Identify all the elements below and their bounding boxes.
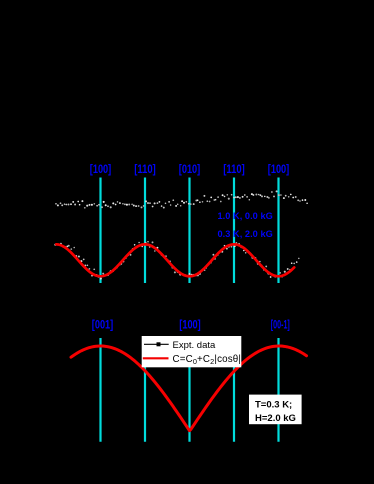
svg-text:0.3 K, 2.0 kG: 0.3 K, 2.0 kG — [218, 229, 273, 239]
svg-text:[00-1]: [00-1] — [271, 317, 290, 331]
svg-text:[110]: [110] — [134, 162, 156, 176]
svg-text:[001]: [001] — [92, 317, 114, 331]
svg-text:H=2.0 kG: H=2.0 kG — [255, 413, 296, 424]
svg-text:[100]: [100] — [90, 162, 112, 176]
svg-text:T=0.3 K;: T=0.3 K; — [255, 399, 292, 410]
svg-text:C=C0+C2|cosθ|: C=C0+C2|cosθ| — [173, 354, 242, 366]
svg-text:1.0 K, 0.0 kG: 1.0 K, 0.0 kG — [218, 211, 273, 221]
svg-text:Expt. data: Expt. data — [173, 340, 216, 351]
svg-text:[100]: [100] — [268, 162, 290, 176]
svg-text:[100]: [100] — [179, 317, 201, 331]
svg-text:[010]: [010] — [179, 162, 201, 176]
svg-text:[110]: [110] — [223, 162, 245, 176]
